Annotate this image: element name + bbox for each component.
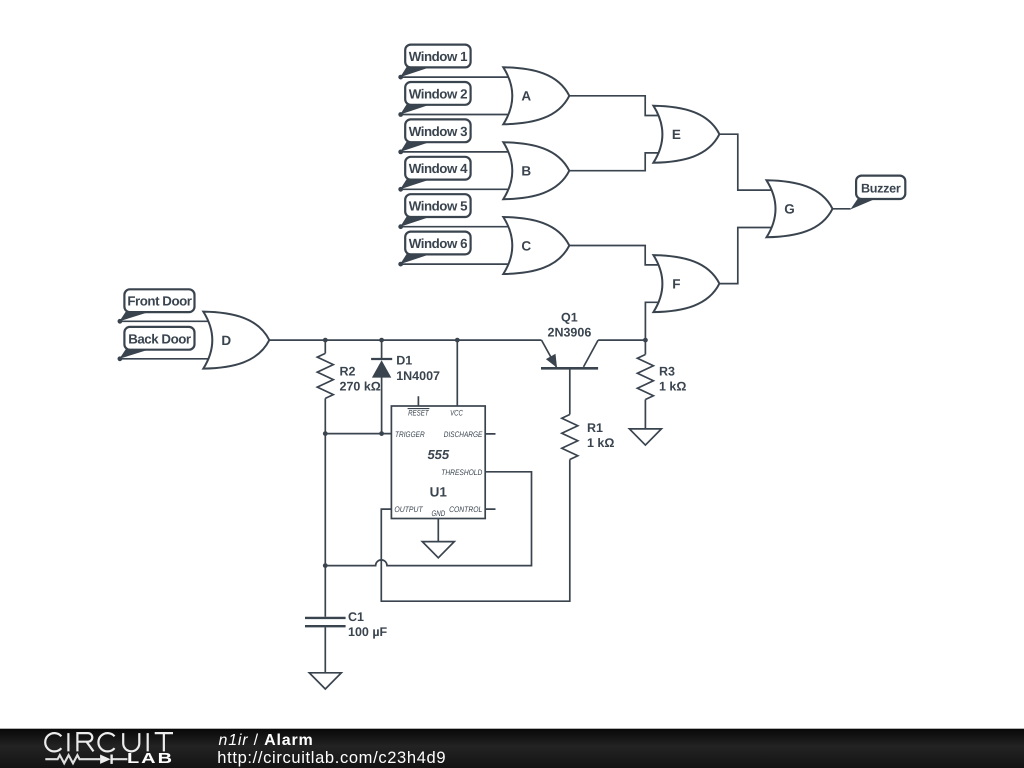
svg-text:C: C bbox=[521, 238, 531, 253]
svg-text:D: D bbox=[221, 333, 231, 348]
svg-text:1N4007: 1N4007 bbox=[396, 369, 440, 383]
svg-text:Back Door: Back Door bbox=[128, 331, 191, 346]
svg-text:G: G bbox=[784, 202, 795, 217]
svg-text:VCC: VCC bbox=[450, 409, 463, 418]
svg-text:R3: R3 bbox=[659, 364, 675, 378]
svg-text:100 µF: 100 µF bbox=[348, 625, 388, 639]
svg-text:Front Door: Front Door bbox=[127, 294, 191, 309]
svg-text:U1: U1 bbox=[430, 485, 448, 500]
svg-text:DISCHARGE: DISCHARGE bbox=[444, 430, 483, 439]
svg-text:E: E bbox=[672, 127, 681, 142]
svg-text:R1: R1 bbox=[587, 421, 603, 435]
svg-text:C1: C1 bbox=[348, 610, 364, 624]
svg-text:B: B bbox=[521, 164, 531, 179]
svg-text:1 kΩ: 1 kΩ bbox=[587, 436, 614, 450]
svg-text:Window 3: Window 3 bbox=[409, 124, 467, 139]
svg-text:OUTPUT: OUTPUT bbox=[394, 505, 423, 514]
svg-text:Window 5: Window 5 bbox=[409, 199, 468, 214]
svg-text:Window 4: Window 4 bbox=[409, 161, 468, 176]
svg-text:RESET: RESET bbox=[408, 409, 429, 418]
svg-text:Window 6: Window 6 bbox=[409, 236, 467, 251]
svg-text:Buzzer: Buzzer bbox=[861, 181, 901, 195]
svg-text:A: A bbox=[521, 89, 531, 104]
svg-text:R2: R2 bbox=[340, 364, 356, 378]
svg-text:Window 1: Window 1 bbox=[409, 49, 468, 64]
svg-text:Q1: Q1 bbox=[561, 311, 578, 325]
svg-text:1 kΩ: 1 kΩ bbox=[659, 379, 686, 393]
svg-text:555: 555 bbox=[427, 447, 449, 462]
svg-text:2N3906: 2N3906 bbox=[548, 326, 592, 340]
svg-text:GND: GND bbox=[432, 509, 446, 518]
svg-text:270 kΩ: 270 kΩ bbox=[340, 379, 381, 393]
svg-text:D1: D1 bbox=[396, 354, 412, 368]
svg-text:THRESHOLD: THRESHOLD bbox=[441, 468, 482, 477]
svg-text:CONTROL: CONTROL bbox=[449, 505, 482, 514]
svg-text:F: F bbox=[672, 277, 680, 292]
svg-text:Window 2: Window 2 bbox=[409, 86, 467, 101]
svg-text:TRIGGER: TRIGGER bbox=[395, 430, 425, 439]
